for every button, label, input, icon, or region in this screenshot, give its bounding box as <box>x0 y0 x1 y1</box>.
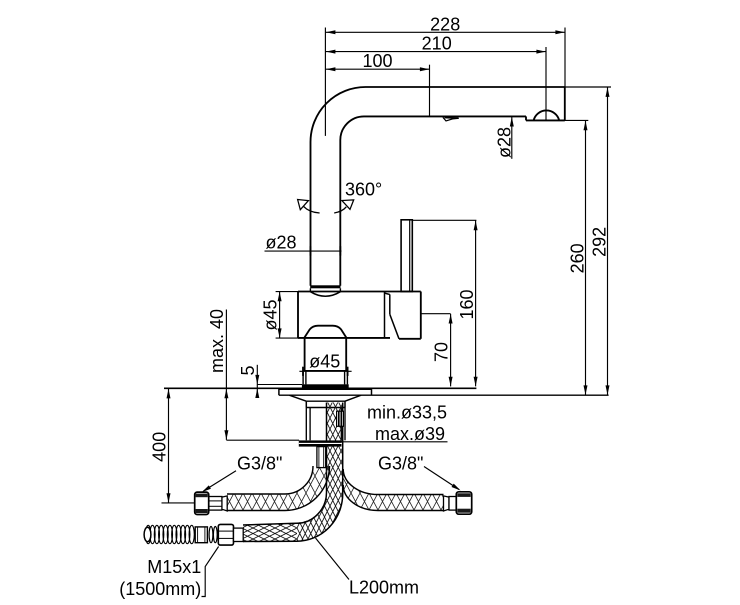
left G3/8 connector nut <box>222 496 227 511</box>
svg-text:L200mm: L200mm <box>349 578 419 598</box>
countertop line <box>164 387 476 389</box>
spray hose collar and rings <box>195 527 207 543</box>
right G3/8 connector nut <box>444 496 450 511</box>
aerator dome at spout tip <box>564 87 566 120</box>
svg-text:G3/8": G3/8" <box>237 453 282 473</box>
base ring <box>303 370 347 372</box>
spout: swivel L-shaped pipe outline <box>311 87 366 142</box>
dimension 292 <box>565 86 611 88</box>
label diameter 28 at spout tip <box>511 117 513 159</box>
svg-text:min.ø33,5: min.ø33,5 <box>367 403 447 423</box>
pull-out spray hose (L200mm) vertical run and bend <box>297 403 343 542</box>
svg-text:292: 292 <box>590 227 610 257</box>
svg-text:70: 70 <box>432 342 452 362</box>
svg-text:ø45: ø45 <box>261 299 281 330</box>
dimension diameter 45 base <box>299 370 351 372</box>
dimension 260 <box>559 119 588 121</box>
svg-text:360°: 360° <box>345 179 382 199</box>
neck <box>304 338 306 371</box>
svg-text:(1500mm): (1500mm) <box>119 579 201 599</box>
body cylinder <box>298 291 421 293</box>
mounting washer <box>299 440 342 446</box>
left hose end tube <box>317 447 326 468</box>
dimension max 40 counter thickness <box>225 310 227 440</box>
dimension 210 <box>326 51 546 53</box>
dimension 228 <box>326 31 565 33</box>
handle lever <box>401 220 412 292</box>
neck dome <box>304 326 347 339</box>
svg-text:max.ø39: max.ø39 <box>375 424 445 444</box>
left supply hose <box>227 466 330 511</box>
svg-text:5: 5 <box>238 365 258 375</box>
dimension 400 <box>168 389 170 503</box>
svg-text:M15x1: M15x1 <box>147 557 201 577</box>
svg-text:ø28: ø28 <box>495 127 515 158</box>
threaded shank <box>305 408 307 441</box>
bracket bottom baseline <box>279 394 609 396</box>
svg-text:G3/8": G3/8" <box>378 453 423 473</box>
svg-text:228: 228 <box>430 14 460 34</box>
svg-text:400: 400 <box>150 432 170 462</box>
under-counter mounting bracket <box>278 389 280 395</box>
svg-text:ø28: ø28 <box>265 232 296 252</box>
svg-text:210: 210 <box>422 34 452 54</box>
dimension diameter 45 body <box>279 292 281 339</box>
rotation arrows <box>304 206 320 213</box>
corrugated spray hose end <box>146 525 151 543</box>
body socket arc <box>310 292 340 297</box>
svg-text:100: 100 <box>362 51 392 71</box>
label diameter 28 at pipe <box>265 250 342 252</box>
handle base block <box>385 293 390 294</box>
svg-text:ø45: ø45 <box>309 351 340 371</box>
dimension 5 plate height <box>256 365 258 397</box>
svg-text:160: 160 <box>457 289 477 319</box>
dimension 70 <box>422 313 451 315</box>
svg-text:260: 260 <box>567 243 587 273</box>
pipe collar ring <box>310 285 340 288</box>
pull-out head seam mark <box>443 117 459 121</box>
M15x1 hex nut and adapter <box>218 524 233 545</box>
right supply hose <box>343 469 443 511</box>
base plate <box>302 384 349 388</box>
spray hose end fitting <box>337 411 344 426</box>
svg-text:max. 40: max. 40 <box>207 309 227 373</box>
dimension 160 <box>413 219 477 221</box>
dimension 100 <box>326 68 430 70</box>
